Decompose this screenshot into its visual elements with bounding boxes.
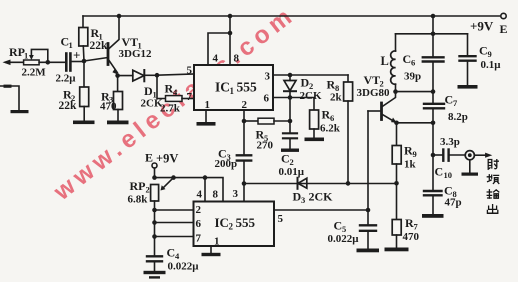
svg-text:9: 9 xyxy=(488,49,492,59)
svg-text:3: 3 xyxy=(233,188,239,200)
potentiometer RP1 xyxy=(9,45,48,79)
node D3 line / R9 / R7 xyxy=(394,181,399,186)
出 xyxy=(487,205,497,214)
ground under C9 xyxy=(458,85,478,89)
node tank top / C6 column xyxy=(431,32,436,37)
svg-text:RP: RP xyxy=(9,45,25,59)
svg-text:6: 6 xyxy=(411,58,415,68)
resistor R5 xyxy=(256,118,291,151)
svg-text:22k: 22k xyxy=(90,40,109,52)
capacitor C3 xyxy=(215,147,252,184)
node VT2 collector / tank xyxy=(393,89,398,94)
svg-text:5: 5 xyxy=(187,65,193,77)
resistor R4 xyxy=(160,82,194,115)
svg-text:555: 555 xyxy=(236,215,256,230)
svg-text:10: 10 xyxy=(444,170,453,180)
svg-text:6.2k: 6.2k xyxy=(320,123,341,135)
svg-text:470: 470 xyxy=(100,100,117,112)
capacitor C1 (electrolytic) xyxy=(56,35,81,85)
svg-text:2.2M: 2.2M xyxy=(22,67,47,79)
node D1/R4/pin5 xyxy=(155,73,160,78)
node tap pin2 xyxy=(152,208,157,213)
resistor R9 xyxy=(392,123,417,184)
svg-text:6.8k: 6.8k xyxy=(128,194,149,206)
diode D2 2CK xyxy=(284,75,322,102)
node tap pin6 xyxy=(152,220,157,225)
wire C7 column down xyxy=(432,123,434,191)
svg-text:4: 4 xyxy=(197,189,203,201)
wire IC2 pin5 to VT2 base column xyxy=(274,209,368,211)
node C10 / C8 xyxy=(431,153,436,158)
node pin3 line / D2 xyxy=(288,73,293,78)
capacitor C8 xyxy=(424,184,462,215)
svg-text:0.022μ: 0.022μ xyxy=(328,233,360,245)
svg-text:2k: 2k xyxy=(330,92,343,104)
connector RF output (coax) xyxy=(462,151,493,176)
label +9V E xyxy=(470,19,508,37)
svg-text:IC: IC xyxy=(215,80,230,95)
wire tank top node xyxy=(396,33,468,35)
wire pin6 to R6 xyxy=(273,98,314,111)
svg-text:2CK: 2CK xyxy=(300,90,322,102)
svg-text:C: C xyxy=(479,43,488,57)
wire tank bottom node xyxy=(396,91,434,93)
potentiometer RP2 xyxy=(128,178,174,206)
svg-text:5: 5 xyxy=(278,213,284,225)
node rail / C6 column xyxy=(431,14,436,19)
watermark www.elecfans.com xyxy=(48,1,300,207)
svg-text:8: 8 xyxy=(234,53,240,65)
transistor VT2 3DG80 xyxy=(357,73,397,123)
svg-text:IC: IC xyxy=(215,215,229,230)
resistor R8 xyxy=(327,75,353,183)
svg-text:C: C xyxy=(403,52,412,66)
svg-text:47p: 47p xyxy=(445,197,462,209)
svg-text:3.3p: 3.3p xyxy=(440,136,460,148)
wire pin3 to D2 and R8 xyxy=(273,74,348,76)
ground under C8 xyxy=(422,214,444,218)
ground under R7 xyxy=(385,248,409,252)
capacitor C10 (3.3p) xyxy=(433,136,465,180)
node tank bottom / C6 column xyxy=(431,89,436,94)
node tap pin7 xyxy=(152,234,157,239)
svg-text:E: E xyxy=(500,22,508,36)
node C3 / IC2 pin3 / D3 line xyxy=(242,181,247,186)
resistor R3 xyxy=(100,76,123,121)
node pin5 line / base column xyxy=(366,208,371,213)
svg-text:7: 7 xyxy=(414,222,419,232)
svg-text:7: 7 xyxy=(187,91,193,103)
node VT2 emitter xyxy=(394,121,399,126)
node VT1 emitter / R3 / D1 xyxy=(115,73,120,78)
svg-text:0.022μ: 0.022μ xyxy=(168,261,200,273)
node E line / RP2 xyxy=(152,175,157,180)
svg-text:3DG12: 3DG12 xyxy=(119,48,153,60)
ground IC1 pin1 xyxy=(197,110,216,126)
svg-text:+: + xyxy=(73,48,80,63)
wire node down to R4 xyxy=(157,75,166,98)
svg-text:7: 7 xyxy=(453,98,458,108)
input wire with arrow xyxy=(6,61,24,63)
wire emitter to C7 column xyxy=(397,122,434,124)
wire D1 to pin5 node xyxy=(144,74,157,76)
ground IC2 pin1 xyxy=(202,246,221,256)
svg-text:2: 2 xyxy=(229,222,234,232)
svg-text:RP: RP xyxy=(130,179,146,193)
svg-text:VT: VT xyxy=(364,73,381,87)
svg-text:22k: 22k xyxy=(59,100,78,112)
输 xyxy=(487,190,499,198)
capacitor C7 xyxy=(424,93,468,123)
op IC2 555 timer box xyxy=(194,188,275,248)
transistor VT1 3DG12 xyxy=(108,16,152,75)
node D2 / pin6 line xyxy=(288,95,293,100)
wire tap to IC2 pin7 xyxy=(155,236,194,238)
wire IC1 pin4/pin8 bracket to rail xyxy=(208,16,230,65)
capacitor C4 xyxy=(147,246,199,273)
svg-text:1: 1 xyxy=(214,236,220,248)
terminal E +9V (open circle) xyxy=(145,151,178,169)
node pin2/R5/C3 xyxy=(242,119,247,124)
svg-text:0.1μ: 0.1μ xyxy=(481,59,502,71)
svg-text:C: C xyxy=(435,165,444,179)
ground under R2 xyxy=(73,121,95,125)
svg-text:2: 2 xyxy=(196,204,202,216)
射 xyxy=(488,160,498,170)
node rail / VT1 collector xyxy=(117,14,122,19)
svg-text:270: 270 xyxy=(257,140,274,152)
op IC1 555 timer box xyxy=(187,53,274,112)
ground under C2 xyxy=(281,149,299,152)
频 xyxy=(487,175,499,184)
node R5 / C2 / D2 branch xyxy=(288,119,293,124)
node at RP1 wiper xyxy=(46,60,51,65)
node D3 line / R8 xyxy=(346,181,351,186)
wire D3 line xyxy=(244,183,397,185)
svg-text:7: 7 xyxy=(196,233,202,245)
svg-text:4: 4 xyxy=(175,251,180,261)
terminal +9V E (open circle) xyxy=(501,13,506,18)
svg-text:9: 9 xyxy=(413,149,417,159)
wire pin2 node to R5 xyxy=(244,120,258,122)
wire VT2 base column xyxy=(367,111,369,225)
resistor R2 xyxy=(59,61,89,121)
diode D3 2CK xyxy=(293,178,334,205)
wire node to IC1 pin5 xyxy=(157,74,194,75)
svg-text:470: 470 xyxy=(403,231,420,243)
wire IC1 pin2 down xyxy=(243,110,245,121)
node base VT1 xyxy=(82,59,87,64)
input jack ground (lower-left partial) xyxy=(0,85,29,114)
capacitor C6 xyxy=(403,16,444,104)
svg-text:0.01μ: 0.01μ xyxy=(279,166,305,178)
svg-text:2.2μ: 2.2μ xyxy=(56,73,77,85)
node E line / RP2 wiper xyxy=(171,175,176,180)
svg-text:C: C xyxy=(445,93,454,107)
wire node to VT1 base xyxy=(84,58,108,62)
svg-text:200p: 200p xyxy=(215,158,238,170)
wire IC2 pin4 xyxy=(204,178,206,202)
ground under R6 xyxy=(305,138,325,142)
diode D1 2CK xyxy=(133,70,163,110)
svg-text:E: E xyxy=(145,151,153,165)
svg-text:L: L xyxy=(381,54,389,68)
ground under R3 xyxy=(107,121,129,125)
svg-text:6: 6 xyxy=(264,93,270,105)
wire tap to IC2 pin6 xyxy=(155,222,194,224)
label pin5 xyxy=(278,213,284,225)
label RF output (射频输出) xyxy=(487,160,499,214)
svg-text:C: C xyxy=(334,219,343,233)
svg-text:555: 555 xyxy=(237,80,258,95)
svg-text:8: 8 xyxy=(213,189,219,201)
svg-text:1k: 1k xyxy=(404,159,417,171)
node pin8 bracket xyxy=(228,31,233,36)
ground under C4 xyxy=(144,271,166,279)
svg-text:C: C xyxy=(444,184,453,198)
svg-text:8.2p: 8.2p xyxy=(448,111,468,123)
wire E to IC2 pins 4,8 xyxy=(155,168,224,202)
node E line / pin4 xyxy=(203,175,208,180)
svg-text:1: 1 xyxy=(24,51,28,61)
resistor R1 xyxy=(79,16,108,61)
node rail pin8 xyxy=(228,14,233,19)
svg-text:6: 6 xyxy=(196,218,202,230)
capacitor C5 xyxy=(328,219,377,249)
svg-text:3DG80: 3DG80 xyxy=(357,87,391,99)
svg-text:2.7k: 2.7k xyxy=(160,102,181,114)
resistor R7 xyxy=(392,183,419,247)
wire node to IC2 pin3 xyxy=(243,184,245,202)
inductor L xyxy=(381,34,396,92)
svg-text:2CK: 2CK xyxy=(309,190,334,204)
svg-text:1: 1 xyxy=(230,86,235,96)
resistor R6 xyxy=(310,108,341,138)
capacitor C9 xyxy=(460,34,502,85)
wire pin2 node down to C3 xyxy=(243,121,245,155)
svg-text:C: C xyxy=(167,246,176,260)
wire RP1 to C1 xyxy=(39,61,65,63)
node emitter line / C7 column xyxy=(431,121,436,126)
ground under C5 xyxy=(357,249,380,253)
svg-text:C: C xyxy=(281,152,290,166)
wire RP2 down with taps xyxy=(154,201,156,256)
wire D2 node down to R5 node xyxy=(289,98,291,134)
svg-text:6: 6 xyxy=(330,113,334,123)
wire tap to IC2 pin2 xyxy=(155,209,194,211)
svg-text:3: 3 xyxy=(265,71,271,83)
wire top +9V rail xyxy=(83,15,501,17)
wire C1 to base node xyxy=(70,61,84,63)
svg-text:4: 4 xyxy=(213,53,219,65)
svg-text:3: 3 xyxy=(301,195,305,205)
capacitor C2 xyxy=(279,133,305,178)
svg-text:+9V: +9V xyxy=(156,152,178,166)
svg-text:39p: 39p xyxy=(404,70,421,82)
svg-text:+9V: +9V xyxy=(470,19,494,34)
wire emitter node to D1 xyxy=(118,75,133,77)
